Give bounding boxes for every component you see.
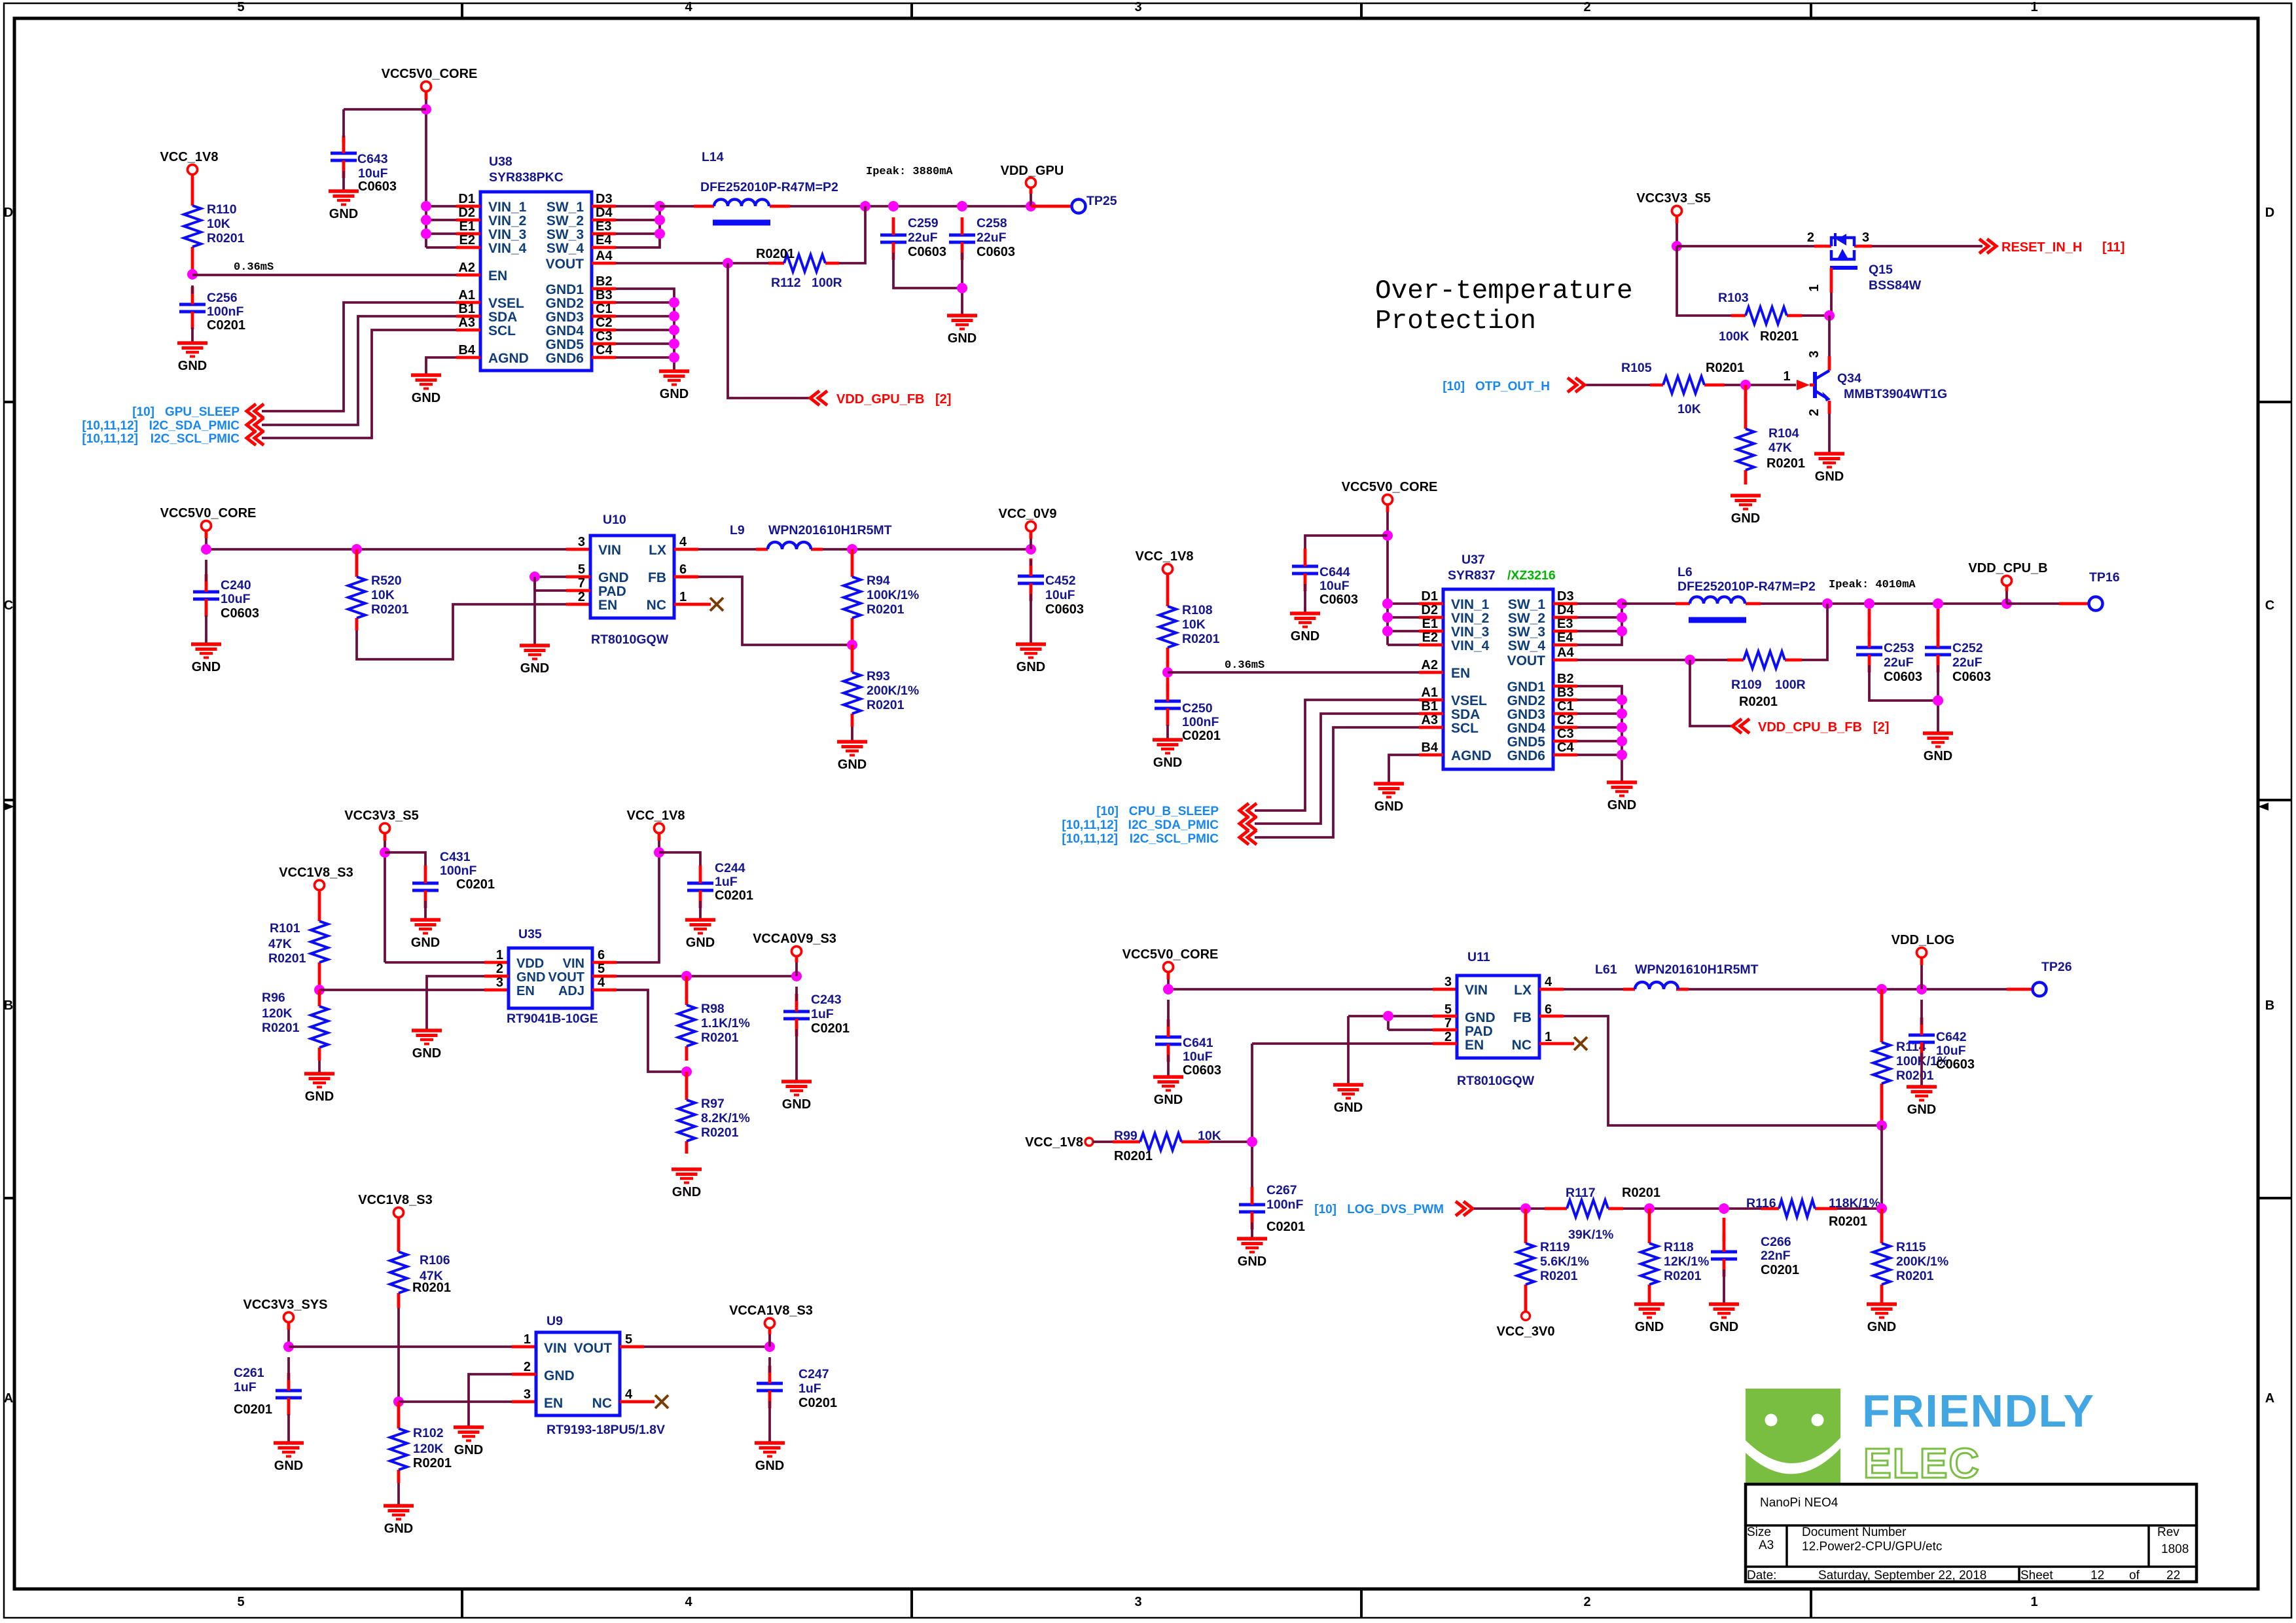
svg-text:10K: 10K xyxy=(207,217,230,231)
ground Q34 emitter xyxy=(1814,454,1844,484)
svg-text:D: D xyxy=(2265,206,2274,220)
svg-text:22nF: 22nF xyxy=(1761,1249,1791,1263)
wire U10 VIN rail xyxy=(206,530,590,549)
svg-text:B: B xyxy=(4,998,13,1013)
svg-text:D1: D1 xyxy=(1421,589,1438,604)
svg-text:GND: GND xyxy=(1334,1101,1363,1115)
label C259 xyxy=(908,216,946,259)
ground R104 xyxy=(1731,496,1761,526)
label C252 xyxy=(1952,641,1991,684)
power flag VCCA1V8_S3 xyxy=(729,1304,813,1328)
svg-text:VCC_1V8: VCC_1V8 xyxy=(1136,549,1194,564)
inductor L9 xyxy=(768,542,811,549)
svg-text:5: 5 xyxy=(237,0,244,14)
svg-text:RT8010GQW: RT8010GQW xyxy=(1457,1074,1535,1088)
svg-text:DFE252010P-R47M=P2: DFE252010P-R47M=P2 xyxy=(700,180,838,194)
svg-text:GND: GND xyxy=(1016,660,1045,674)
label R108 xyxy=(1182,603,1220,646)
svg-text:10uF: 10uF xyxy=(358,166,388,181)
svg-text:3: 3 xyxy=(496,976,503,990)
svg-text:NC: NC xyxy=(592,1396,612,1411)
svg-text:6: 6 xyxy=(598,948,605,962)
power flag VCC_0V9 xyxy=(999,507,1057,532)
svg-text:R0201: R0201 xyxy=(1739,695,1778,709)
svg-text:GND2: GND2 xyxy=(1507,693,1545,708)
border row letters xyxy=(4,206,2274,1406)
svg-text:R0201: R0201 xyxy=(1760,329,1799,344)
wire VOUT to R112 xyxy=(616,262,768,264)
wire VOUT U9 xyxy=(644,1345,770,1348)
wire VDD_GPU stub xyxy=(1030,187,1033,206)
svg-text:A4: A4 xyxy=(1557,646,1574,660)
source circle VCC_3V0 xyxy=(1522,1312,1530,1321)
svg-text:5: 5 xyxy=(598,962,605,976)
power flag VCC_1V8 (R110) xyxy=(160,150,219,175)
svg-text:GND: GND xyxy=(755,1459,784,1473)
svg-text:U11: U11 xyxy=(1467,950,1490,964)
svg-text:C244: C244 xyxy=(715,861,745,875)
junction R105/R104 xyxy=(1740,380,1751,390)
svg-text:I2C_SCL_PMIC: I2C_SCL_PMIC xyxy=(1130,832,1219,846)
wire VCC3V3_SYS drop xyxy=(287,1322,291,1347)
U38 pin names xyxy=(488,200,584,366)
no-connect U9 NC xyxy=(655,1395,668,1408)
svg-text:3: 3 xyxy=(1444,975,1452,989)
svg-text:U38: U38 xyxy=(489,155,512,169)
label C253 xyxy=(1884,641,1922,684)
label C261 xyxy=(234,1366,272,1417)
label L6 xyxy=(1677,565,1816,594)
net label LOG_DVS_PWM xyxy=(1314,1203,1444,1216)
capacitor C431 xyxy=(412,866,439,908)
capacitor C240 xyxy=(193,560,219,617)
junction rail/C253 xyxy=(1864,598,1874,609)
svg-text:[11]: [11] xyxy=(2102,240,2125,255)
svg-text:EN: EN xyxy=(1465,1038,1484,1053)
wire RESET_IN_H tail xyxy=(0,0,1,1)
capacitor C244 xyxy=(687,866,713,908)
svg-text:RT8010GQW: RT8010GQW xyxy=(591,632,669,647)
svg-text:LOG_DVS_PWM: LOG_DVS_PWM xyxy=(1347,1203,1444,1216)
power flag VCC5V0_CORE (U38) xyxy=(382,67,478,92)
svg-text:D2: D2 xyxy=(458,206,475,220)
resistor R106 xyxy=(390,1217,407,1402)
svg-text:C0201: C0201 xyxy=(207,318,245,333)
wire divider drop xyxy=(1880,1125,1883,1209)
svg-text:VIN: VIN xyxy=(563,957,584,971)
border column numbers xyxy=(237,0,2037,1609)
svg-text:12K/1%: 12K/1% xyxy=(1664,1254,1709,1269)
svg-text:VDD_LOG: VDD_LOG xyxy=(1892,933,1955,947)
wire C644 gnd xyxy=(1304,584,1306,613)
wire C266 gnd xyxy=(1723,1269,1725,1304)
svg-text:VCC5V0_CORE: VCC5V0_CORE xyxy=(160,506,257,520)
resistor R118 xyxy=(1641,1209,1658,1304)
svg-text:R102: R102 xyxy=(413,1426,444,1440)
svg-text:VOUT: VOUT xyxy=(574,1341,613,1356)
svg-text:R0201: R0201 xyxy=(207,231,245,246)
wire SCL U37 xyxy=(1255,727,1419,837)
svg-text:NanoPi NEO4: NanoPi NEO4 xyxy=(1760,1496,1839,1510)
label XZ3216 xyxy=(1507,568,1556,583)
junction C644 branch xyxy=(1382,530,1393,541)
label C431 xyxy=(440,850,495,892)
svg-text:GND: GND xyxy=(598,570,629,585)
svg-text:VIN_2: VIN_2 xyxy=(1451,611,1489,626)
junction R102/EN xyxy=(393,1396,404,1407)
wire C256 gnd xyxy=(191,327,194,343)
svg-text:C243: C243 xyxy=(811,993,842,1007)
junctions SW bus xyxy=(655,201,665,239)
svg-text:AGND: AGND xyxy=(1451,748,1492,763)
svg-text:2: 2 xyxy=(496,962,503,976)
svg-text:VSEL: VSEL xyxy=(488,296,524,311)
net label I2C_SCL_PMIC (U37) xyxy=(1062,832,1219,846)
svg-text:GND: GND xyxy=(1815,469,1844,484)
svg-text:ADJ: ADJ xyxy=(558,984,584,998)
wire Q15 gate xyxy=(1830,268,1833,316)
svg-text:VOUT: VOUT xyxy=(1507,653,1546,668)
svg-text:FB: FB xyxy=(1513,1010,1532,1025)
svg-text:VIN_4: VIN_4 xyxy=(488,241,527,256)
svg-text:D4: D4 xyxy=(596,206,613,220)
svg-text:C0201: C0201 xyxy=(715,888,753,903)
wire EN U11 xyxy=(1252,1042,1433,1045)
wire C244 branch xyxy=(659,852,700,873)
resistor R102 xyxy=(390,1402,407,1483)
svg-text:C4: C4 xyxy=(1557,740,1574,755)
wire GND bus U37 xyxy=(1577,686,1622,782)
svg-text:C1: C1 xyxy=(1557,699,1574,714)
svg-text:2: 2 xyxy=(1807,230,1814,245)
svg-text:EN: EN xyxy=(1451,666,1470,681)
label RT8010GQW (U11) xyxy=(1457,1074,1535,1088)
svg-text:Size: Size xyxy=(1747,1525,1771,1539)
title text Date xyxy=(1747,1569,1986,1582)
svg-text:VDD_CPU_B_FB: VDD_CPU_B_FB xyxy=(1758,720,1862,735)
testpoint TP26 wire xyxy=(2007,988,2032,991)
ground C452 xyxy=(1016,644,1046,674)
wire R102 gnd xyxy=(397,1483,400,1506)
svg-text:U35: U35 xyxy=(518,927,542,941)
title Over-temperature xyxy=(1375,276,1633,306)
testpoint TP25 wire xyxy=(1031,205,1071,208)
svg-text:8.2K/1%: 8.2K/1% xyxy=(701,1111,750,1125)
label R99 xyxy=(1114,1129,1221,1163)
svg-text:100K/1%: 100K/1% xyxy=(867,588,919,602)
svg-text:C452: C452 xyxy=(1045,574,1076,588)
label U37 xyxy=(1448,553,1496,583)
svg-text:VIN_1: VIN_1 xyxy=(1451,597,1490,612)
ground C244 xyxy=(685,920,715,950)
wire caps gnd join U37 xyxy=(1869,665,1938,733)
svg-text:C258: C258 xyxy=(977,216,1007,230)
power flag VDD_GPU xyxy=(1001,164,1064,188)
capacitor C261 xyxy=(276,1357,302,1415)
svg-text:GND: GND xyxy=(672,1185,701,1199)
junction rail/C259 xyxy=(888,201,899,211)
svg-text:C261: C261 xyxy=(234,1366,264,1380)
label C641 xyxy=(1183,1036,1221,1078)
svg-text:A4: A4 xyxy=(596,249,613,263)
wire C641 gnd xyxy=(1167,1055,1170,1077)
svg-text:L14: L14 xyxy=(702,150,724,164)
svg-text:C250: C250 xyxy=(1182,701,1213,716)
svg-text:GND: GND xyxy=(1710,1320,1738,1334)
svg-text:10uF: 10uF xyxy=(221,592,251,606)
svg-text:U9: U9 xyxy=(547,1314,563,1328)
svg-text:10K: 10K xyxy=(1182,617,1206,632)
svg-text:[10]: [10] xyxy=(1314,1203,1336,1216)
svg-text:E4: E4 xyxy=(596,233,612,247)
title Protection xyxy=(1375,306,1536,337)
title text Size xyxy=(1747,1525,1774,1552)
junction R94/R93 xyxy=(847,640,857,650)
svg-text:U10: U10 xyxy=(603,513,626,527)
wire VOUT U35 xyxy=(617,975,797,977)
svg-text:GND: GND xyxy=(305,1089,334,1104)
svg-text:GND4: GND4 xyxy=(1507,721,1546,736)
junction C431 branch xyxy=(380,847,390,858)
svg-text:10K: 10K xyxy=(371,588,395,602)
svg-text:SDA: SDA xyxy=(1451,707,1480,722)
svg-text:DFE252010P-R47M=P2: DFE252010P-R47M=P2 xyxy=(1677,579,1816,594)
label VCC_3V0 xyxy=(1497,1324,1555,1339)
junction rail/C240 xyxy=(201,544,211,555)
svg-text:[2]: [2] xyxy=(935,392,951,407)
svg-text:E1: E1 xyxy=(1422,617,1438,631)
svg-text:BSS84W: BSS84W xyxy=(1869,278,1922,293)
svg-text:3: 3 xyxy=(1807,350,1821,357)
svg-text:D4: D4 xyxy=(1557,603,1574,617)
svg-text:VDD_CPU_B: VDD_CPU_B xyxy=(1968,561,2047,575)
U35 pin numbers xyxy=(496,948,605,990)
U9 pin stubs xyxy=(512,1347,655,1402)
junction rail/VDD_CPU_B xyxy=(2001,598,2012,609)
svg-text:GND: GND xyxy=(1291,629,1319,644)
label Q15 xyxy=(1869,263,1922,293)
svg-text:2: 2 xyxy=(1807,409,1821,416)
title text Sheet xyxy=(2020,1569,2180,1582)
off-page connector LOG_DVS_PWM xyxy=(1456,1201,1473,1216)
svg-text:VIN_3: VIN_3 xyxy=(488,227,526,242)
svg-text:C247: C247 xyxy=(798,1367,829,1381)
ground U38 GND bus xyxy=(659,371,689,401)
svg-text:R0201: R0201 xyxy=(413,1456,452,1470)
svg-text:R0201: R0201 xyxy=(1896,1068,1934,1083)
label TP26 xyxy=(2041,960,2072,974)
ground C644 xyxy=(1290,613,1320,644)
ground C253/C252 xyxy=(1923,733,1953,763)
svg-text:6: 6 xyxy=(1545,1002,1552,1017)
Q34 base arrow xyxy=(1797,380,1814,390)
label R118 xyxy=(1664,1240,1709,1283)
wire AGND U37 xyxy=(1389,755,1419,784)
svg-text:R0201: R0201 xyxy=(756,247,795,261)
junction VOUT/FB xyxy=(723,258,733,268)
svg-text:GND1: GND1 xyxy=(546,282,584,297)
power flag VCC5V0_CORE (U37) xyxy=(1342,480,1438,505)
net label GPU_SLEEP xyxy=(132,405,240,419)
svg-text:C2: C2 xyxy=(1557,713,1574,727)
wire PWM row 1 xyxy=(1474,1207,1545,1210)
wire VSEL to CPU_B_SLEEP xyxy=(1255,700,1419,811)
svg-text:2: 2 xyxy=(1444,1030,1452,1044)
svg-text:0.36mS: 0.36mS xyxy=(1225,659,1265,672)
label R520 xyxy=(371,574,409,617)
IC U9 box xyxy=(536,1332,620,1415)
svg-text:GND: GND xyxy=(660,387,689,401)
resistor R115 xyxy=(1873,1209,1890,1304)
junction R108/EN xyxy=(1162,667,1173,678)
wire VSEL to GPU_SLEEP xyxy=(262,302,456,411)
junctions GND bus U38 xyxy=(669,297,679,363)
label R116 xyxy=(1746,1196,1880,1229)
svg-text:4: 4 xyxy=(685,0,692,14)
IC U10 box xyxy=(590,536,674,618)
svg-text:GND: GND xyxy=(520,661,549,676)
svg-text:SW_1: SW_1 xyxy=(1508,597,1546,612)
svg-text:[10,11,12]: [10,11,12] xyxy=(82,419,138,433)
svg-text:A: A xyxy=(4,1391,13,1406)
svg-text:R0201: R0201 xyxy=(701,1030,739,1045)
svg-text:R97: R97 xyxy=(701,1097,725,1111)
off-page connector VDD_GPU_FB xyxy=(810,391,827,405)
label Q34 xyxy=(1837,371,1947,401)
label R94 xyxy=(867,574,919,617)
wire VDD_GPU_FB xyxy=(728,263,810,398)
off-page connector I2C_SDA_PMIC (U37) xyxy=(1240,816,1257,831)
svg-text:VCCA1V8_S3: VCCA1V8_S3 xyxy=(729,1304,813,1318)
U35 pin stubs xyxy=(484,962,617,990)
svg-text:GND6: GND6 xyxy=(1507,748,1545,763)
junctions SW bus U37 xyxy=(1617,598,1627,636)
svg-text:D3: D3 xyxy=(596,192,613,206)
junctions VIN bus xyxy=(421,201,431,239)
svg-text:GND: GND xyxy=(274,1459,303,1473)
svg-text:GND: GND xyxy=(329,207,358,221)
wire SW bus U37 xyxy=(1577,604,1622,645)
svg-text:R93: R93 xyxy=(867,669,890,684)
svg-text:SW_1: SW_1 xyxy=(547,200,584,215)
no-connect U10 NC xyxy=(710,598,723,611)
svg-text:A1: A1 xyxy=(458,288,475,302)
wire R103 branch xyxy=(1677,246,1731,316)
svg-text:C240: C240 xyxy=(221,578,251,593)
label RT8010GQW (U10) xyxy=(591,632,669,647)
label C643 xyxy=(357,152,397,194)
junction L9/R94 xyxy=(847,544,857,555)
capacitor C267 xyxy=(1239,1187,1265,1230)
resistor R104 xyxy=(1737,385,1754,484)
svg-text:C266: C266 xyxy=(1761,1235,1791,1249)
svg-text:R0201: R0201 xyxy=(867,602,905,617)
wire U9 VIN rail xyxy=(289,1345,536,1348)
svg-text:C644: C644 xyxy=(1319,565,1350,579)
svg-text:C0201: C0201 xyxy=(1761,1263,1799,1277)
junction rail/R114 xyxy=(1876,984,1887,994)
label L61 xyxy=(1595,962,1759,977)
capacitor C243 xyxy=(783,987,810,1036)
svg-text:200K/1%: 200K/1% xyxy=(1896,1254,1948,1269)
svg-text:U37: U37 xyxy=(1462,553,1485,567)
junction rail/C252 xyxy=(1933,598,1943,609)
svg-text:GND3: GND3 xyxy=(546,310,584,325)
junction U11 GND pin xyxy=(1383,1011,1393,1021)
svg-text:RESET_IN_H: RESET_IN_H xyxy=(2001,240,2082,255)
svg-text:Saturday, September 22, 2018: Saturday, September 22, 2018 xyxy=(1818,1569,1986,1582)
wire VCC_0V9 stub xyxy=(1030,531,1033,549)
svg-text:VIN_3: VIN_3 xyxy=(1451,625,1489,640)
wire LX to L61 xyxy=(1564,988,2007,991)
resistor R116 xyxy=(1732,1200,1882,1217)
label R101 xyxy=(268,921,306,966)
ground U35 GND xyxy=(412,1030,442,1061)
ground R96 xyxy=(304,1074,334,1104)
label C250 xyxy=(1182,701,1221,743)
net label VDD_CPU_B_FB xyxy=(1758,720,1889,735)
ground C259/C258 xyxy=(947,316,977,346)
svg-text:2: 2 xyxy=(1583,0,1590,14)
U11 pin stubs xyxy=(1433,989,1574,1044)
testpoint TP26 xyxy=(2033,983,2047,996)
svg-text:VCC5V0_CORE: VCC5V0_CORE xyxy=(1122,947,1219,962)
svg-text:ELEC: ELEC xyxy=(1863,1440,1981,1487)
svg-text:C267: C267 xyxy=(1266,1183,1297,1197)
U38 pin numbers xyxy=(458,192,613,357)
svg-text:5: 5 xyxy=(578,562,585,577)
off-page connector I2C_SCL_PMIC xyxy=(247,431,264,445)
svg-text:R98: R98 xyxy=(701,1002,725,1016)
svg-text:C2: C2 xyxy=(596,316,613,330)
resistor R520 xyxy=(348,549,365,630)
wire gate to Q34 collector xyxy=(1828,316,1831,371)
svg-text:B1: B1 xyxy=(1421,699,1438,714)
U35 pin names xyxy=(516,957,584,998)
svg-text:47K: 47K xyxy=(1768,441,1792,455)
svg-text:VCC_3V0: VCC_3V0 xyxy=(1497,1324,1555,1339)
svg-text:Protection: Protection xyxy=(1375,306,1536,337)
label R93 xyxy=(867,669,919,712)
junction R110/EN xyxy=(187,269,198,280)
wire VOUT U37 xyxy=(1577,659,1727,661)
label U11 xyxy=(1467,950,1490,964)
svg-text:22: 22 xyxy=(2166,1569,2180,1582)
svg-text:Document Number: Document Number xyxy=(1802,1525,1907,1539)
svg-text:R94: R94 xyxy=(867,574,890,588)
label C244 xyxy=(715,861,753,903)
svg-text:4: 4 xyxy=(685,1595,692,1609)
wire C247 gnd xyxy=(768,1401,771,1443)
svg-text:C0603: C0603 xyxy=(977,245,1015,259)
wire VCC_1V8 drop xyxy=(617,833,659,962)
svg-text:GND: GND xyxy=(178,359,207,373)
ground C243 xyxy=(781,1082,812,1112)
svg-text:R0201: R0201 xyxy=(1540,1269,1578,1283)
svg-text:E3: E3 xyxy=(1557,617,1573,631)
svg-text:10uF: 10uF xyxy=(1183,1049,1213,1064)
svg-text:EN: EN xyxy=(598,598,617,613)
svg-text:Ipeak: 3880mA: Ipeak: 3880mA xyxy=(866,166,953,178)
wire source rail Q15 xyxy=(1677,245,1982,247)
power flag VDD_LOG xyxy=(1892,933,1955,958)
ground R93 xyxy=(837,742,867,772)
resistor R110 xyxy=(184,175,201,274)
power flag VCC5V0_CORE (U10) xyxy=(160,506,257,531)
label R103 xyxy=(1718,291,1799,344)
svg-text:5: 5 xyxy=(625,1332,632,1347)
svg-text:B3: B3 xyxy=(596,288,613,302)
